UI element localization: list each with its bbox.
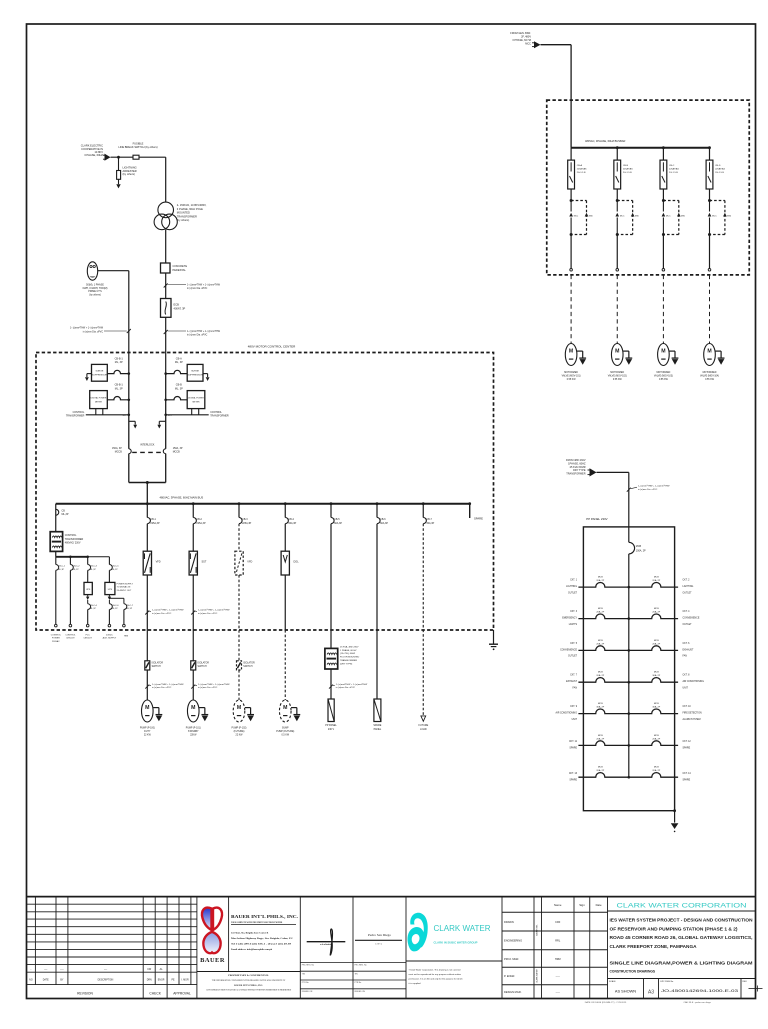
svg-text:METER: METER	[95, 401, 103, 403]
VFD pump duty	[143, 551, 151, 575]
svg-text:480VAC/ 230V: 480VAC/ 230V	[65, 542, 81, 545]
breaker CB-B-1	[107, 370, 129, 373]
svg-text:PP PANEL 230V: PP PANEL 230V	[586, 517, 607, 521]
svg-text:in (x)mm Dia. uPVC: in (x)mm Dia. uPVC	[336, 687, 356, 689]
svg-text:20A, 2P: 20A, 2P	[652, 642, 660, 645]
svg-text:ANY REPRODUCTION IN PART OR AS: ANY REPRODUCTION IN PART OR AS A WHOLE W…	[206, 989, 292, 992]
svg-text:OF RESERVOIR AND PUMPING STATI: OF RESERVOIR AND PUMPING STATION (PHASE …	[610, 926, 739, 931]
svg-text:MCB: MCB	[598, 608, 603, 610]
motor pump P-100 duty	[142, 700, 154, 722]
svg-text:480VAC, 3PHASE, 60HZ MAIN BUS: 480VAC, 3PHASE, 60HZ MAIN BUS	[160, 495, 204, 499]
breaker CB-B MOV feeder	[616, 148, 618, 160]
svg-text:FUTURE: FUTURE	[419, 724, 429, 727]
svg-text:CB-C-4: CB-C-4	[90, 605, 98, 607]
svg-text:CB-C-5: CB-C-5	[112, 566, 120, 568]
svg-text:MCC: MCC	[666, 215, 671, 217]
branch circuit row CKT. 5 / CKT. 6	[578, 646, 628, 651]
svg-text:DIGITAL POWER: DIGITAL POWER	[91, 397, 107, 400]
svg-text:in (x)mm Dia. uPVC: in (x)mm Dia. uPVC	[152, 687, 172, 689]
svg-text:ML,1P: ML,1P	[90, 569, 97, 571]
breaker CB-7 future load	[422, 504, 424, 518]
signature cells	[352, 897, 354, 999]
svg-text:BAUER INT'L PHILS., INC.: BAUER INT'L PHILS., INC.	[231, 914, 298, 919]
svg-text:CB-4: CB-4	[288, 518, 294, 521]
svg-text:SPARE: SPARE	[683, 747, 691, 750]
svg-text:M: M	[615, 348, 619, 354]
svg-text:MCC: MCC	[620, 215, 625, 217]
svg-text:xCT: xCT	[123, 415, 128, 417]
svg-text:(DRY TYPE): (DRY TYPE)	[340, 663, 353, 665]
svg-text:1- (x)mm²THW + 1- (x)mm²THW: 1- (x)mm²THW + 1- (x)mm²THW	[198, 683, 230, 686]
svg-text:PROJ. MGR.: PROJ. MGR.	[504, 957, 519, 961]
svg-text:PANEL: PANEL	[374, 728, 382, 731]
svg-text:M: M	[191, 705, 195, 711]
svg-text:PUMP (FUTURE): PUMP (FUTURE)	[276, 731, 294, 733]
svg-text:PLC: PLC	[86, 634, 91, 636]
svg-text:LINE BREAK SWITCH (by others): LINE BREAK SWITCH (by others)	[118, 145, 157, 149]
svg-text:in (x)mm Dia. uPVC: in (x)mm Dia. uPVC	[198, 687, 218, 689]
svg-text:2G-1.5 B: 2G-1.5 B	[669, 172, 678, 174]
svg-text:TRANSFORMER: TRANSFORMER	[177, 214, 197, 218]
PP panel box	[328, 699, 334, 722]
svg-text:1- (x)mm²THW + 1- (x)mm²THW: 1- (x)mm²THW + 1- (x)mm²THW	[152, 683, 184, 686]
branch circuit row CKT. 13 / CKT. 14	[578, 773, 628, 778]
svg-text:MCB: MCB	[654, 608, 659, 610]
svg-text:1- (x)mm²THW + 1- (x)mm²THW: 1- (x)mm²THW + 1- (x)mm²THW	[198, 609, 230, 612]
spare panel box	[374, 699, 381, 722]
svg-text:M: M	[661, 348, 665, 354]
svg-text:HRM: HRM	[555, 958, 561, 961]
breaker CB-C-1	[55, 557, 57, 565]
svg-text:CHECK: CHECK	[149, 991, 161, 995]
svg-text:C I V I L: C I V I L	[375, 943, 382, 945]
svg-text:MCB: MCB	[598, 577, 603, 579]
svg-text:CLARK WATER CORPORATION: CLARK WATER CORPORATION	[617, 902, 747, 909]
svg-text:CIRCUIT: CIRCUIT	[66, 638, 75, 640]
svg-text:CB-C: CB-C	[669, 165, 675, 167]
BAUER INT'L PHILS address cell	[299, 897, 301, 999]
svg-text:225A,3P: 225A,3P	[150, 522, 160, 525]
wire entrance horizontal	[111, 156, 134, 158]
svg-text:DRN: DRN	[147, 979, 152, 981]
svg-text:CONTROL: CONTROL	[73, 411, 85, 414]
svg-text:STANDBY: STANDBY	[188, 730, 199, 733]
svg-text:CLARK FREEPORT ZONE, PAMPANGA: CLARK FREEPORT ZONE, PAMPANGA	[610, 944, 698, 949]
svg-text:MacArthur Highway Brgy., Sta.: MacArthur Highway Brgy., Sta. Brigida, C…	[231, 937, 293, 940]
svg-text:1st Floor, Sta. Brigida East C: 1st Floor, Sta. Brigida East Center B	[231, 931, 269, 934]
svg-text:BY: BY	[60, 979, 64, 981]
breaker CB-B-2	[107, 396, 129, 399]
svg-text:DATE: DATE	[43, 978, 49, 981]
main bus 480VAC 3 PHASE 60HZ	[56, 503, 470, 505]
svg-text:PP PANEL: PP PANEL	[325, 724, 337, 727]
svg-text:60A,3P: 60A,3P	[288, 522, 296, 525]
svg-text:EMERGENCY: EMERGENCY	[562, 618, 577, 620]
svg-text:CB-2: CB-2	[196, 518, 202, 521]
svg-text:CB-B-1: CB-B-1	[115, 384, 124, 387]
svg-text:Email address: info@bauerphils: Email address: info@bauerphils.com.ph	[231, 948, 273, 951]
branch circuit row CKT. 11 / CKT. 12	[578, 741, 628, 746]
svg-text:CKT. 7: CKT. 7	[570, 675, 578, 677]
svg-text:MCCB: MCCB	[115, 451, 122, 454]
svg-text:UPS: UPS	[86, 589, 91, 591]
svg-text:MCB: MCB	[654, 640, 659, 642]
motor VALVE (MOV-101)	[565, 344, 577, 366]
svg-text:20A, 2P: 20A, 2P	[652, 769, 660, 772]
motor pump P-101 standby	[187, 700, 199, 722]
svg-text:20A, 2P: 20A, 2P	[596, 642, 604, 645]
breaker CB-C MOV feeder	[662, 148, 664, 160]
svg-text:SURGE: SURGE	[96, 371, 104, 373]
cable note VFD out	[145, 611, 149, 615]
svg-text:----: ----	[60, 968, 63, 971]
svg-text:CKT. 13: CKT. 13	[569, 773, 578, 775]
svg-text:EXHAUST: EXHAUST	[566, 680, 577, 683]
svg-text:VALVE (MOV-102): VALVE (MOV-102)	[608, 374, 627, 377]
svg-text:----: ----	[44, 968, 47, 971]
svg-text:ENGR: ENGR	[158, 979, 165, 981]
control circuit terminals	[55, 624, 58, 627]
wire ECB down to MCC	[165, 317, 167, 373]
fusible line break switch	[133, 155, 139, 159]
svg-text:Pedro San Diego: Pedro San Diego	[368, 933, 391, 937]
svg-text:3 PHASE, 60HZ: 3 PHASE, 60HZ	[84, 153, 103, 157]
svg-text:APPROVAL: APPROVAL	[173, 991, 191, 995]
svg-text:CB-C-6: CB-C-6	[112, 605, 120, 607]
svg-text:METER: METER	[193, 401, 201, 403]
svg-text:MOTORIZED: MOTORIZED	[703, 372, 717, 374]
svg-text:(by others): (by others)	[177, 218, 190, 222]
svg-text:MCB: MCB	[654, 735, 659, 737]
svg-text:60A,3P: 60A,3P	[380, 522, 388, 525]
svg-text:MCCB: MCCB	[173, 451, 180, 454]
svg-text:ML, 3P: ML, 3P	[115, 361, 123, 364]
wire feeders join	[129, 482, 166, 484]
svg-text:SWITCH: SWITCH	[198, 666, 207, 668]
branch circuit row CKT. 7 / CKT. 8	[578, 678, 628, 683]
contactor CB-A	[570, 199, 573, 202]
svg-text:CAD FILE : pedro.san diego: CAD FILE : pedro.san diego	[684, 1001, 712, 1004]
signature stroke	[330, 929, 332, 955]
svg-text:0.55 KW: 0.55 KW	[567, 379, 577, 381]
svg-text:0.55 KW: 0.55 KW	[613, 379, 623, 381]
transformer T1 pole mounted	[158, 202, 174, 218]
breaker CB-C-3	[87, 557, 89, 565]
svg-text:PUMP (P-101): PUMP (P-101)	[186, 728, 201, 730]
svg-text:IES WATER SYSTEM PROJECT - DES: IES WATER SYSTEM PROJECT - DESIGN AND CO…	[610, 918, 753, 923]
tie breaker 150A 3P MCCB	[163, 449, 165, 454]
svg-text:225A,3P: 225A,3P	[242, 522, 252, 525]
svg-text:ML,1P: ML,1P	[90, 608, 97, 610]
surge suppressor earth arrow	[203, 373, 208, 375]
svg-text:CB-A: CB-A	[176, 357, 182, 360]
svg-text:ISOLATOR: ISOLATOR	[243, 662, 255, 665]
MOV MCC dashed enclosure	[547, 100, 750, 275]
svg-text:M: M	[145, 705, 149, 711]
svg-text:1- (x)mm²THW + 1- (x)mm²THW: 1- (x)mm²THW + 1- (x)mm²THW	[70, 327, 104, 330]
panel ground	[673, 809, 676, 812]
svg-text:MCB: MCB	[598, 640, 603, 642]
svg-text:A3: A3	[648, 989, 654, 995]
svg-text:THE INFORMATION CONTAINED IN T: THE INFORMATION CONTAINED IN THIS DRAWIN…	[212, 979, 286, 982]
contactor CB-B	[616, 199, 619, 202]
svg-text:CB-7: CB-7	[426, 518, 432, 521]
svg-text:SUMP: SUMP	[282, 728, 289, 730]
svg-text:CKT. 4: CKT. 4	[683, 611, 691, 613]
svg-text:SWITCH: SWITCH	[152, 666, 161, 668]
svg-text:CB-1: CB-1	[150, 518, 156, 521]
svg-text:150A, 3P: 150A, 3P	[173, 447, 183, 450]
approval signatures table	[502, 911, 608, 913]
svg-text:Name: Name	[554, 903, 562, 907]
svg-text:DATE OF ISSUE (DD-MM-YY) : 7-2: DATE OF ISSUE (DD-MM-YY) : 7-29-2015	[585, 1001, 627, 1004]
svg-text:CRF: CRF	[555, 921, 561, 924]
svg-text:M: M	[237, 705, 241, 711]
svg-text:OUTLET: OUTLET	[568, 592, 578, 594]
svg-text:MCB: MCB	[654, 703, 659, 705]
svg-text:in (x)mm Dia. uPVC: in (x)mm Dia. uPVC	[638, 489, 658, 491]
svg-text:in (x)mm Dia. uPVC: in (x)mm Dia. uPVC	[187, 335, 208, 337]
svg-text:(by others): (by others)	[123, 172, 136, 176]
svg-text:20A, 2P: 20A, 2P	[596, 674, 604, 677]
svg-text:ECB: ECB	[174, 303, 180, 307]
svg-text:480V MOTOR CONTROL CENTER: 480V MOTOR CONTROL CENTER	[248, 345, 296, 349]
wire pedestal to ECB	[165, 273, 167, 299]
svg-text:it is supplied.: it is supplied.	[409, 982, 422, 985]
svg-text:PRC REG. No: PRC REG. No	[302, 965, 314, 967]
svg-text:MCB: MCB	[598, 735, 603, 737]
current transformer connection xCT	[102, 409, 104, 415]
svg-text:SPARE: SPARE	[373, 724, 381, 727]
cable note PP panel	[329, 685, 333, 689]
branch circuit row CKT. 1 / CKT. 2	[578, 582, 628, 587]
svg-text:FAN: FAN	[573, 687, 578, 690]
svg-text:1- (x)mm²THW + 1- (x)mm²THW: 1- (x)mm²THW + 1- (x)mm²THW	[152, 609, 184, 612]
future load open arrow	[421, 716, 426, 721]
ground MCC enclosure	[493, 630, 495, 644]
svg-text:PE: PE	[171, 979, 175, 981]
svg-text:225AT/AS: 225AT/AS	[577, 167, 587, 170]
svg-text:ML, 3P: ML, 3P	[175, 387, 183, 390]
svg-text:AIR CONDITIONING: AIR CONDITIONING	[683, 680, 705, 683]
svg-text:in (x)mm Dia. uPVC: in (x)mm Dia. uPVC	[187, 288, 208, 290]
svg-text:2G-1.5 B: 2G-1.5 B	[577, 172, 586, 174]
svg-text:VFD: VFD	[247, 561, 252, 564]
title block top line	[27, 896, 756, 898]
svg-text:ISSUED ON: ISSUED ON	[355, 991, 366, 993]
svg-text:VFD: VFD	[156, 561, 161, 564]
svg-text:(1F+2W), 60HZ: (1F+2W), 60HZ	[340, 653, 356, 655]
svg-text:LIGHTING: LIGHTING	[566, 586, 577, 588]
svg-text:TRANSFORMER: TRANSFORMER	[340, 659, 357, 662]
spare bus stub	[469, 504, 471, 518]
svg-text:VALVE (MOV-103): VALVE (MOV-103)	[654, 374, 673, 377]
svg-text:NO: NO	[29, 979, 33, 981]
svg-text:Date: Date	[596, 903, 602, 907]
breaker CB-1 pump duty	[146, 504, 148, 518]
svg-text:CB-B-1: CB-B-1	[115, 357, 124, 360]
svg-text:CONTROL: CONTROL	[51, 634, 62, 636]
svg-text:TRANSFORMER: TRANSFORMER	[66, 415, 85, 418]
svg-text:LIGHTING: LIGHTING	[683, 586, 694, 588]
svg-text:CB-C-7: CB-C-7	[126, 605, 134, 607]
svg-text:PROPRIETARY & CONFIDENTIAL: PROPRIETARY & CONFIDENTIAL	[228, 974, 269, 977]
svg-text:CB: CB	[62, 509, 66, 512]
svg-text:ML, 3P: ML, 3P	[175, 361, 183, 364]
svg-text:TRANSFORMER: TRANSFORMER	[210, 415, 229, 418]
svg-text:-----: -----	[556, 975, 560, 978]
svg-text:20A, 2P: 20A, 2P	[652, 737, 660, 740]
motor VALVE (MOV-104)	[704, 344, 716, 366]
svg-text:ML,1P: ML,1P	[112, 608, 119, 610]
svg-text:CB-D: CB-D	[715, 165, 721, 167]
svg-text:30A, 2P: 30A, 2P	[652, 674, 660, 677]
svg-text:PUMP (P-100): PUMP (P-100)	[140, 728, 155, 730]
svg-text:MOUNTED: MOUNTED	[177, 211, 190, 215]
svg-text:225AT/AS: 225AT/AS	[669, 167, 679, 170]
svg-text:OUTLET: OUTLET	[683, 624, 693, 626]
svg-text:REV.: REV.	[743, 981, 748, 983]
svg-text:ML, 3P: ML, 3P	[115, 387, 123, 390]
svg-text:POWER: POWER	[52, 638, 60, 640]
cable note pump standby	[191, 685, 195, 689]
cable tap note 2	[164, 330, 168, 334]
transformer 25KVA dry type	[325, 648, 338, 669]
svg-text:3 PHASE, 60Hz POLE: 3 PHASE, 60Hz POLE	[177, 207, 203, 211]
svg-text:Tel # (45) 499-6 (45) 636-1 -: Tel # (45) 499-6 (45) 636-1 - (Fax) # (4…	[231, 943, 292, 946]
svg-text:ENGINEERING: ENGINEERING	[504, 939, 522, 943]
svg-text:2G-1.5 B: 2G-1.5 B	[623, 172, 632, 174]
svg-text:SWITCH: SWITCH	[243, 666, 252, 668]
svg-text:30A,3P: 30A,3P	[426, 522, 434, 525]
svg-text:CKT. 5: CKT. 5	[570, 643, 578, 645]
svg-text:MCB: MCB	[636, 545, 642, 548]
CLARK WATER logo	[501, 897, 503, 999]
MOV bus 480VAC	[571, 147, 709, 149]
svg-text:ML,1P: ML,1P	[58, 569, 65, 571]
svg-text:OUTLET: OUTLET	[683, 592, 693, 594]
svg-text:CB-B: CB-B	[623, 165, 629, 167]
svg-text:ML,1P: ML,1P	[112, 569, 119, 571]
breaker CB-C-6 and CB-C-7	[108, 600, 110, 604]
surge suppressor earth arrow	[87, 373, 92, 375]
svg-text:DESCRIPTION: DESCRIPTION	[98, 979, 114, 981]
project title cell CLARK WATER CORPORATION	[608, 910, 756, 912]
svg-text:CKT. 6: CKT. 6	[683, 643, 691, 645]
wire to MOV motor dashed	[616, 275, 618, 344]
svg-text:FAN: FAN	[683, 655, 688, 658]
svg-text:CONTROL: CONTROL	[65, 534, 77, 537]
isolator switch pump duty	[145, 661, 150, 670]
svg-text:CONTROL: CONTROL	[65, 634, 76, 636]
svg-text:24VDC: 24VDC	[106, 634, 113, 636]
svg-text:in (x)mm Dia. uPVC: in (x)mm Dia. uPVC	[198, 613, 218, 615]
svg-text:MCB: MCB	[654, 767, 659, 769]
svg-text:SPARE: SPARE	[569, 778, 577, 781]
svg-text:ISOLATOR: ISOLATOR	[152, 662, 164, 665]
svg-text:CB-C-3: CB-C-3	[90, 566, 98, 568]
svg-text:25 KVA, 480/ 230V: 25 KVA, 480/ 230V	[340, 645, 359, 648]
svg-text:CKT. 3: CKT. 3	[570, 611, 578, 613]
svg-text:SURGE: SURGE	[191, 371, 199, 373]
svg-text:MCB: MCB	[598, 672, 603, 674]
svg-text:UPS: UPS	[108, 589, 113, 591]
svg-text:UNIT: UNIT	[572, 719, 578, 721]
svg-text:CKT. 2: CKT. 2	[683, 580, 691, 582]
svg-text:CKT. 14: CKT. 14	[683, 773, 692, 775]
svg-text:ISOLATOR: ISOLATOR	[198, 662, 210, 665]
svg-text:DUTY: DUTY	[144, 731, 151, 733]
svg-text:20A, 2P: 20A, 2P	[596, 769, 604, 772]
node junction lightning tap	[117, 156, 120, 159]
svg-text:CKT. 9: CKT. 9	[570, 706, 578, 708]
svg-text:in (x)mm Dia. uPVC: in (x)mm Dia. uPVC	[152, 613, 172, 615]
svg-text:permission. It is on file and: permission. It is on file and only for t…	[409, 978, 464, 981]
svg-text:LOAD: LOAD	[420, 728, 427, 731]
svg-text:YOUR COMPLETE WATER TREATMENT: YOUR COMPLETE WATER TREATMENT SOLUTIONS …	[231, 921, 283, 924]
svg-text:DRAWN: DRAWN	[504, 920, 514, 924]
svg-text:(by others): (by others)	[89, 294, 101, 297]
svg-text:VALVE (MOV-101): VALVE (MOV-101)	[562, 374, 581, 377]
svg-text:2- 150KVA, 13.8KV/480V,: 2- 150KVA, 13.8KV/480V,	[177, 203, 207, 207]
svg-text:230VAC: 230VAC	[52, 640, 60, 643]
circuit breaker ECB 400AT 3P	[161, 299, 172, 318]
svg-text:0.5 KW: 0.5 KW	[281, 735, 289, 737]
svg-text:22 KW: 22 KW	[236, 735, 244, 737]
svg-text:2G-1.5 B: 2G-1.5 B	[715, 172, 724, 174]
breaker CB-D MOV feeder	[709, 148, 711, 160]
svg-text:CONSTRUCTION DRAWINGS: CONSTRUCTION DRAWINGS	[610, 969, 656, 973]
svg-text:xCT: xCT	[168, 415, 173, 417]
svg-text:Sign: Sign	[579, 903, 585, 907]
svg-text:CB-6: CB-6	[380, 518, 386, 521]
svg-text:ROAD 45 CORNER ROAD 26, GLOBAL: ROAD 45 CORNER ROAD 26, GLOBAL GATEWAY L…	[610, 935, 753, 940]
branch circuit row CKT. 9 / CKT. 10	[578, 709, 628, 714]
svg-text:MCB: MCB	[654, 577, 659, 579]
svg-text:400AT, 3P: 400AT, 3P	[174, 306, 186, 310]
svg-text:CONTROL: CONTROL	[210, 411, 222, 414]
breaker CB-3 pump future	[238, 504, 240, 518]
motor VALVE (MOV-103)	[658, 344, 670, 366]
branch circuit row CKT. 3 / CKT. 4	[578, 614, 628, 619]
breaker CB-C control transformer drop	[55, 504, 57, 532]
svg-text:BAUER: BAUER	[200, 957, 225, 964]
svg-text:LIGHTS: LIGHTS	[569, 624, 578, 626]
svg-text:SST: SST	[202, 561, 207, 564]
breaker CB-5 PP panel transformer	[330, 504, 332, 518]
DOL starter sump pump	[281, 551, 289, 575]
svg-text:FUSIBLE: FUSIBLE	[133, 142, 144, 146]
svg-text:CB-5: CB-5	[334, 518, 340, 521]
svg-text:30A, 2P: 30A, 2P	[596, 706, 604, 709]
feeder CB-A vertical	[165, 374, 167, 449]
svg-text:DESIGN MGR.: DESIGN MGR.	[504, 990, 522, 994]
wire to MOV motor dashed	[709, 275, 711, 344]
svg-text:ARRESTER: ARRESTER	[123, 169, 137, 173]
isolator switch pump standby	[191, 661, 196, 670]
svg-text:DIGITAL POWER: DIGITAL POWER	[188, 397, 204, 400]
svg-text:PTR No: PTR No	[355, 982, 362, 984]
svg-text:EXHAUST: EXHAUST	[683, 648, 694, 651]
svg-text:in (x)mm Dia. uPVC: in (x)mm Dia. uPVC	[83, 331, 104, 333]
cable note PP feed	[627, 488, 631, 492]
svg-text:480VAC, 3PHASE, 60HZ BUSBAR: 480VAC, 3PHASE, 60HZ BUSBAR	[585, 139, 625, 143]
svg-text:-----: -----	[556, 991, 560, 994]
svg-text:©Clark Water Corporation. This: ©Clark Water Corporation. This drawing i…	[409, 968, 462, 971]
surge suppressor	[92, 364, 108, 381]
svg-text:M: M	[283, 705, 287, 711]
svg-text:TO 480VAC IN: TO 480VAC IN	[117, 586, 131, 589]
